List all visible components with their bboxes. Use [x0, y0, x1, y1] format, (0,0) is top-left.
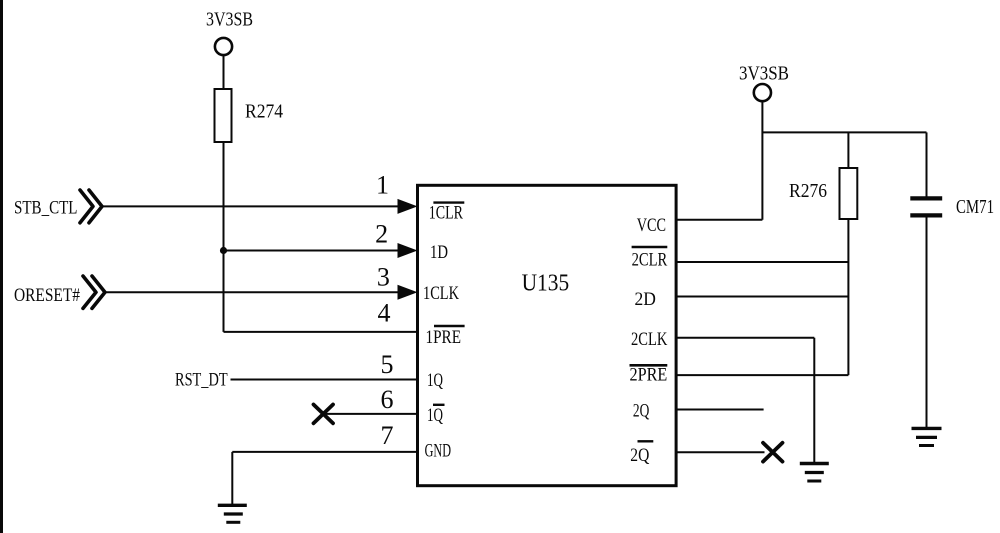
wire pin6 1Q-bar stub — [323, 413, 418, 415]
svg-text:VCC: VCC — [637, 215, 666, 236]
svg-text:4: 4 — [378, 299, 391, 328]
port chevron ORESET# — [83, 276, 96, 308]
wire CM71 bottom to ground — [926, 215, 928, 428]
wire pin7 GND horizontal — [232, 451, 417, 453]
svg-text:1Q: 1Q — [427, 405, 443, 426]
wire pin4 1PRE horizontal — [224, 331, 418, 333]
no-connect X on 1Q-bar — [314, 405, 334, 424]
svg-text:STB_CTL: STB_CTL — [14, 198, 78, 219]
wire rail to R276 top — [847, 132, 849, 168]
wire RST_DT to pin5 — [231, 379, 418, 381]
wire pin2 1D from junction — [224, 250, 400, 252]
svg-text:1Q: 1Q — [427, 370, 443, 391]
svg-text:2: 2 — [375, 220, 388, 249]
wire R276 bottom down to 2PRE row — [847, 219, 849, 375]
svg-text:2D: 2D — [635, 289, 656, 310]
svg-text:3V3SB: 3V3SB — [206, 9, 253, 31]
wire pin 2D — [676, 296, 848, 298]
svg-text:1PRE: 1PRE — [426, 327, 462, 348]
no-connect X on 2Q-bar — [763, 443, 783, 462]
svg-text:2CLK: 2CLK — [631, 329, 668, 350]
wire pin 2Q stub — [676, 409, 764, 411]
ground (2CLK net) — [800, 462, 829, 465]
node 3V3SB (right) power terminal circle — [754, 84, 771, 101]
wire rail to CM71 top — [926, 132, 928, 198]
svg-text:R274: R274 — [245, 101, 283, 123]
svg-text:2CLR: 2CLR — [632, 250, 668, 271]
svg-text:1D: 1D — [430, 242, 448, 263]
arrow into pin1 1CLR — [398, 199, 418, 214]
resistor R276 body — [840, 168, 858, 219]
svg-text:RST_DT: RST_DT — [175, 370, 228, 391]
svg-text:U135: U135 — [522, 271, 570, 297]
wire pin 2CLR — [676, 261, 848, 263]
arrow into pin3 1CLK — [398, 285, 418, 300]
wire circle to R274 top — [223, 55, 225, 89]
svg-text:ORESET#: ORESET# — [14, 285, 80, 306]
svg-text:GND: GND — [425, 441, 451, 462]
wire pin 2CLK — [676, 337, 814, 339]
wire pin 2PRE — [676, 374, 848, 376]
svg-text:6: 6 — [381, 385, 394, 414]
wire ORESET# to pin3 — [104, 291, 399, 293]
wire right power vertical to VCC row — [761, 101, 763, 219]
svg-text:7: 7 — [381, 421, 394, 450]
svg-text:3: 3 — [377, 262, 390, 291]
svg-text:5: 5 — [381, 350, 394, 379]
svg-text:2Q: 2Q — [630, 445, 649, 466]
svg-text:3V3SB: 3V3SB — [739, 63, 789, 85]
wire pin 2Q-bar stub — [676, 451, 765, 453]
svg-text:2Q: 2Q — [633, 401, 650, 422]
ground (CM71 net) — [912, 427, 942, 430]
wire 2CLK drop to ground — [813, 338, 815, 464]
svg-text:R276: R276 — [789, 180, 827, 202]
wire VCC pin to power vertical — [676, 219, 762, 221]
resistor R274 body — [215, 89, 232, 142]
arrow into pin2 1D — [398, 243, 418, 258]
svg-text:1CLK: 1CLK — [423, 283, 459, 304]
wire power rail horizontal — [762, 131, 926, 133]
junction dot on 1D net — [220, 247, 227, 254]
node 3V3SB (left) power terminal circle — [215, 38, 232, 55]
wire R274 bottom down to 1PRE row — [223, 142, 225, 332]
port chevron STB_CTL — [80, 190, 93, 223]
svg-text:CM71: CM71 — [956, 196, 994, 218]
op IC U135 box — [418, 185, 677, 485]
svg-text:2PRE: 2PRE — [630, 365, 668, 386]
svg-text:1: 1 — [376, 170, 389, 199]
wire STB_CTL to pin1 — [101, 205, 399, 207]
capacitor CM71 plates — [910, 196, 942, 200]
ground (pin7 GND net) — [218, 504, 247, 507]
wire GND drop — [231, 452, 233, 505]
svg-text:1CLR: 1CLR — [429, 203, 463, 224]
sheet border left edge — [0, 0, 3, 533]
